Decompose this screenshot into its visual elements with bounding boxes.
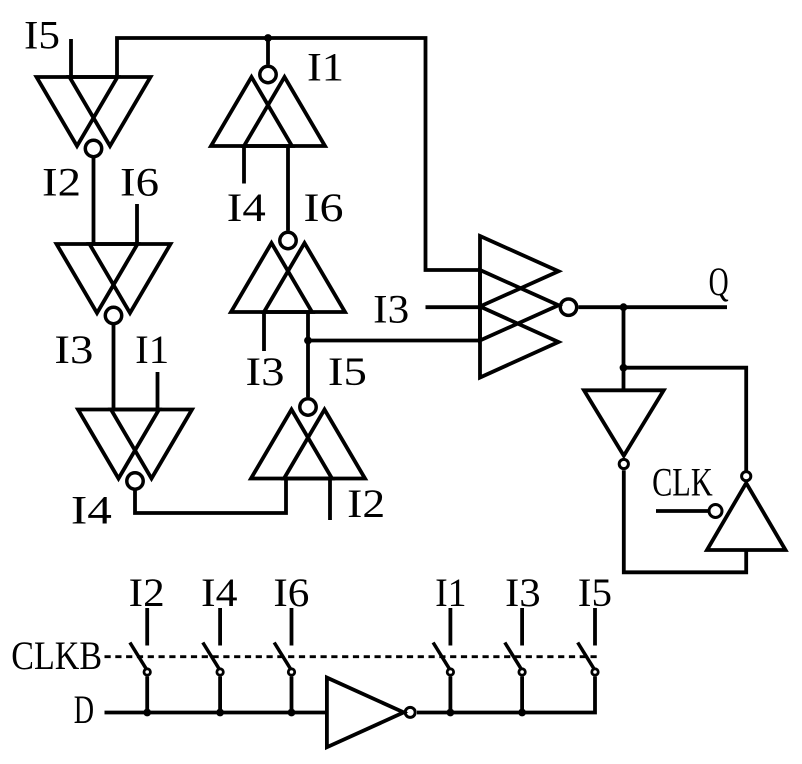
svg-text:I2: I2 xyxy=(129,570,165,615)
svg-text:I1: I1 xyxy=(135,327,169,372)
svg-text:I5: I5 xyxy=(24,13,60,58)
svg-text:I1: I1 xyxy=(435,570,467,615)
svg-text:I3: I3 xyxy=(54,327,93,372)
svg-text:Q: Q xyxy=(709,259,729,304)
svg-text:I5: I5 xyxy=(328,349,367,394)
svg-text:CLKB: CLKB xyxy=(11,633,102,678)
svg-text:I3: I3 xyxy=(373,287,409,332)
svg-text:I3: I3 xyxy=(505,570,541,615)
svg-text:I3: I3 xyxy=(246,349,285,394)
svg-text:D: D xyxy=(74,687,94,732)
svg-text:I6: I6 xyxy=(120,160,159,205)
svg-text:I4: I4 xyxy=(71,488,112,533)
svg-text:I4: I4 xyxy=(227,185,266,230)
svg-text:CLK: CLK xyxy=(652,459,713,504)
svg-text:I2: I2 xyxy=(42,160,81,205)
svg-text:I5: I5 xyxy=(578,570,612,615)
svg-text:I6: I6 xyxy=(304,185,344,230)
svg-text:I6: I6 xyxy=(273,570,309,615)
svg-text:I4: I4 xyxy=(201,570,238,615)
svg-text:I2: I2 xyxy=(347,481,385,526)
svg-text:I1: I1 xyxy=(307,45,344,90)
